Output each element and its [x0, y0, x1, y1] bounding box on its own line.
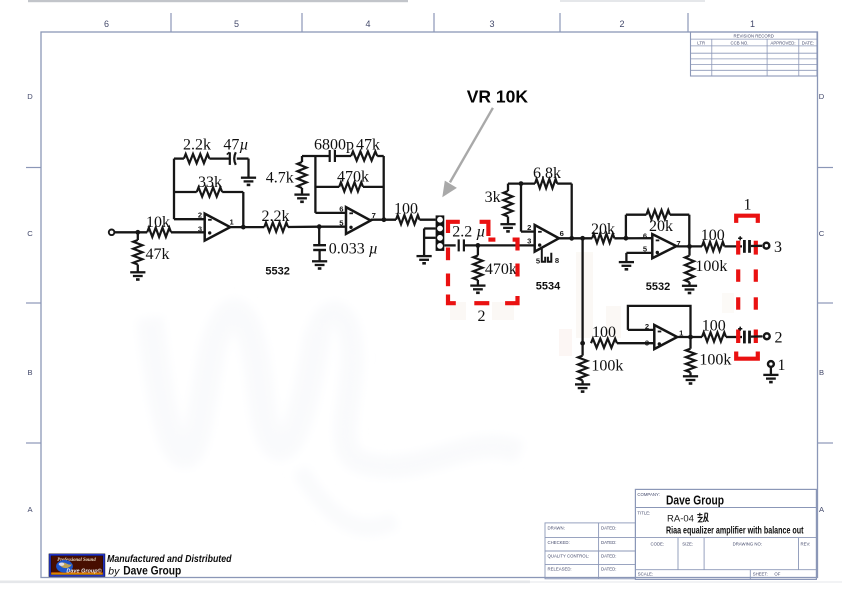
wire 4.7k to ground — [301, 188, 303, 194]
resistor 47k input shunt — [133, 240, 142, 265]
svg-text:2: 2 — [619, 19, 624, 29]
wire terminal 1 to ground — [770, 367, 772, 374]
red dashed box 1 right dash — [754, 297, 758, 309]
svg-text:COMPANY:: COMPANY: — [637, 492, 659, 497]
resistor 3k — [503, 191, 512, 216]
wire 100 to cap — [724, 245, 742, 247]
resistor 100k shunt 4 — [578, 356, 587, 381]
terminal 3 — [764, 243, 770, 249]
wire cap to terminal 3 — [751, 245, 762, 247]
wire 100k to ground 4 — [581, 380, 583, 384]
ground 100k out2 — [683, 376, 698, 383]
svg-text:2.2k: 2.2k — [262, 208, 290, 225]
svg-text:C: C — [27, 229, 33, 238]
wire top branch — [174, 157, 184, 159]
wire 100 to VR pin1 — [420, 219, 436, 221]
svg-text:47µ: 47µ — [223, 137, 248, 154]
red dashed box 2 left dash 2 — [446, 248, 450, 261]
svg-text:DATED:: DATED: — [601, 553, 616, 558]
wire 470k right — [363, 186, 384, 188]
red dashed box 2 top-right corner — [513, 240, 518, 251]
svg-text:1: 1 — [744, 197, 752, 214]
svg-text:CHECKED:: CHECKED: — [548, 540, 570, 545]
svg-text:Dave Group: Dave Group — [123, 564, 181, 578]
red dashed box 1 right dash — [754, 330, 758, 344]
frame zone ticks top — [171, 13, 688, 32]
wire feedback left vertical — [173, 159, 175, 220]
svg-text:6.8k: 6.8k — [533, 165, 561, 182]
wire U1A output — [230, 226, 264, 228]
resistor 2.2k gain — [184, 154, 209, 163]
ground 100k stage4 — [575, 384, 590, 391]
wire pin5 to ground — [625, 253, 627, 262]
svg-text:2.2 µ: 2.2 µ — [452, 224, 485, 241]
red dashed box 2 bottom dash — [474, 301, 489, 305]
op-amp U3A 5532 — [652, 234, 676, 258]
wire feedback top left — [626, 214, 647, 216]
svg-text:3k: 3k — [485, 189, 501, 206]
wire pin5 U3 — [626, 252, 652, 254]
wire 47u to corner — [237, 157, 249, 159]
wire 100k to ground — [688, 282, 690, 285]
svg-text:2: 2 — [775, 330, 783, 347]
potentiometer VR 10K connector — [436, 215, 445, 251]
svg-text:5534: 5534 — [536, 281, 561, 293]
wire 470k to ground — [477, 280, 479, 285]
input terminal — [109, 230, 115, 236]
wire VR pin2 — [424, 227, 436, 229]
revision record table labels — [697, 34, 814, 46]
red dashed box 2 top-left corner — [448, 222, 460, 233]
wire U2 output — [559, 237, 592, 239]
resistor 33k feedback — [197, 187, 222, 196]
wire 47k right — [377, 155, 384, 157]
svg-text:2: 2 — [478, 308, 486, 325]
resistor 10k — [147, 228, 171, 237]
svg-text:100k: 100k — [695, 258, 727, 275]
svg-text:100: 100 — [394, 201, 418, 218]
svg-text:100: 100 — [592, 324, 616, 341]
svg-text:20k: 20k — [591, 221, 615, 238]
svg-text:QUALITY CONTROL:: QUALITY CONTROL: — [548, 553, 590, 558]
wire to 100k shunt — [688, 246, 690, 255]
red dashed box 1 left dash — [736, 297, 740, 309]
wire 20k to pin6 — [614, 237, 652, 239]
svg-text:RELEASED:: RELEASED: — [548, 567, 572, 572]
svg-text:B: B — [27, 368, 32, 377]
svg-text:LTR: LTR — [697, 40, 705, 45]
svg-text:4.7k: 4.7k — [266, 170, 294, 187]
red dashed box 1 right dash — [754, 269, 758, 281]
node U4 output — [688, 335, 693, 340]
wire U3 output — [676, 245, 702, 247]
svg-text:6: 6 — [643, 231, 647, 240]
svg-text:CODE:: CODE: — [651, 542, 665, 547]
scan smudge top edge — [28, 0, 705, 2]
ground pin5 U3 — [619, 262, 634, 269]
wire 2.2k to 47u — [209, 157, 229, 159]
resistor 100 output 2 — [702, 332, 726, 341]
ground 47u — [241, 178, 256, 185]
wire 100k to ground out2 — [689, 372, 691, 376]
svg-text:100: 100 — [701, 227, 725, 244]
op-amp U2 5534 — [535, 225, 559, 252]
wire 0.033u to ground — [318, 250, 320, 261]
node stage4 input — [580, 341, 585, 346]
wire to 4.7k — [301, 156, 303, 162]
wire top 3k to 6.8k — [508, 182, 535, 184]
red dashed box 1 left dash — [736, 269, 740, 281]
wire to pin5 — [319, 226, 346, 228]
red dashed box 1 top bracket — [736, 216, 758, 223]
wire 6800p to 47k — [335, 155, 351, 157]
node U1A output — [241, 225, 246, 230]
svg-text:D: D — [819, 92, 825, 101]
wire 2.2u to pin3 — [464, 244, 535, 246]
wire to 100k shunt 4 — [581, 343, 583, 355]
svg-text:C: C — [819, 229, 825, 238]
svg-text:5: 5 — [234, 19, 239, 29]
svg-text:3: 3 — [645, 339, 649, 348]
svg-text:RA-04: RA-04 — [667, 514, 694, 525]
node 3k junction — [519, 181, 524, 186]
svg-text:SHEET:: SHEET: — [753, 572, 768, 577]
svg-text:1: 1 — [778, 357, 786, 374]
node U2 output — [569, 236, 574, 241]
wire 47k to ground — [137, 265, 139, 272]
wire VR to ground — [423, 229, 425, 256]
capacitor 6800p — [330, 150, 335, 162]
wire feedback left vertical 2 — [314, 156, 316, 213]
svg-text:47k: 47k — [356, 136, 380, 153]
wire U1B output — [371, 219, 396, 221]
svg-text:100: 100 — [702, 318, 726, 335]
terminal 2 — [764, 333, 770, 339]
svg-text:5532: 5532 — [646, 281, 670, 293]
svg-text:DATED:: DATED: — [601, 567, 616, 572]
wire feedback up — [625, 215, 627, 239]
resistor 100 build-out — [396, 215, 420, 224]
node input junction — [135, 230, 140, 235]
wire 2.2k to junction — [288, 226, 319, 229]
red dashed box 1 left dash — [736, 241, 740, 255]
wire cap to terminal 2 — [751, 335, 763, 338]
kanji 改 approximation — [697, 513, 708, 522]
red dashed box 2 step dash — [488, 238, 495, 242]
svg-text:APPROVED:: APPROVED: — [770, 40, 795, 45]
wire pin2 U4 — [628, 329, 654, 331]
wire to 470k shunt — [477, 245, 479, 255]
frame zone numbers — [104, 19, 755, 29]
red dashed box 2 bottom-right corner — [505, 296, 517, 303]
resistor 470k shunt — [473, 256, 482, 281]
wire pin6 — [315, 212, 346, 214]
resistor 100k shunt 3 — [685, 256, 694, 283]
resistor 20k feedback — [646, 210, 670, 219]
title block signature table — [545, 523, 635, 579]
wire 10k to pin3 — [171, 231, 205, 233]
svg-text:2.2k: 2.2k — [183, 137, 211, 154]
svg-text:DATE:: DATE: — [802, 40, 814, 45]
svg-text:CCB NO.: CCB NO. — [731, 40, 749, 45]
svg-text:4: 4 — [365, 19, 370, 29]
svg-text:SIZE:: SIZE: — [682, 542, 693, 547]
red dashed box 2 bottom-left corner — [448, 295, 456, 304]
capacitor output coupling 3 — [738, 236, 751, 253]
wire feedback right vertical — [383, 156, 385, 220]
svg-text:REVISION RECORD: REVISION RECORD — [734, 34, 774, 39]
svg-text:Dave Group: Dave Group — [666, 494, 724, 508]
ground 470k shunt — [470, 286, 485, 293]
annotation arrow — [442, 107, 494, 197]
wire feedback top right — [670, 214, 689, 216]
wire to 3k — [507, 184, 509, 191]
svg-text:DATED:: DATED: — [601, 525, 616, 530]
node 470k junction — [476, 243, 481, 248]
svg-text:20k: 20k — [649, 218, 673, 235]
svg-text:REV:: REV: — [801, 542, 811, 547]
svg-text:1: 1 — [750, 19, 755, 29]
op-amp U1B 5532 — [346, 207, 371, 234]
resistor 4.7k — [297, 162, 306, 188]
frame zone ticks sides — [26, 168, 833, 444]
wire to 100k shunt out2 — [689, 337, 691, 349]
svg-text:Dave Group©: Dave Group© — [66, 568, 102, 575]
svg-text:by: by — [108, 566, 120, 578]
node U3 output — [687, 244, 692, 249]
red dashed box 2 right dash — [515, 264, 519, 277]
resistor 470k feedback — [339, 182, 363, 191]
wire VR pin3 — [424, 237, 436, 239]
scan smudge bottom edge — [0, 581, 530, 584]
svg-text:B: B — [819, 368, 824, 377]
wire top branch 2 — [302, 155, 329, 157]
title block small labels — [548, 492, 811, 577]
ground 47k — [130, 272, 145, 279]
pins 5 and 8 comp stubs — [542, 248, 552, 262]
red dashed box 2 step corner — [480, 222, 489, 236]
resistor 6.8k feedback — [535, 179, 557, 188]
svg-text:5532: 5532 — [265, 266, 289, 278]
terminal 1 — [768, 361, 774, 367]
svg-text:33k: 33k — [198, 174, 222, 191]
red dashed box 1 left dash — [736, 330, 740, 344]
svg-text:470k: 470k — [485, 261, 517, 278]
ground 3k — [500, 224, 515, 231]
revision record table — [691, 32, 818, 76]
svg-text:DRAWING NO:: DRAWING NO: — [733, 542, 762, 547]
svg-text:SCALE:: SCALE: — [638, 572, 653, 577]
wire pin2 — [174, 218, 205, 220]
wire down to ground — [247, 159, 249, 178]
wire pin2 vertical — [520, 184, 522, 232]
node stage3 input — [624, 236, 629, 241]
ground terminal 1 — [763, 375, 778, 382]
wire 100 to pin3 U4 — [617, 342, 654, 344]
wire 3k to ground — [507, 217, 509, 224]
svg-text:6: 6 — [560, 229, 564, 238]
resistor 47k feedback — [351, 151, 377, 160]
svg-text:10k: 10k — [146, 214, 170, 231]
red dashed box 1 bottom bracket — [736, 352, 758, 359]
svg-text:VR 10K: VR 10K — [467, 87, 529, 107]
svg-text:3: 3 — [527, 237, 531, 246]
wire to 470k — [315, 186, 339, 188]
op-amp U3B 5532 — [654, 325, 677, 349]
wire unity feedback loop — [628, 306, 691, 337]
faint beige patches — [450, 252, 734, 356]
op-amp U1A 5532 — [205, 214, 231, 241]
svg-text:6: 6 — [104, 19, 109, 29]
capacitor 0.033u — [313, 245, 326, 250]
wire down to 0.033u — [318, 227, 320, 245]
capacitor 47u polarized — [227, 152, 236, 165]
resistor 2.2k interstage — [264, 223, 288, 232]
wire U4 output — [677, 336, 702, 338]
wire to 33k — [174, 191, 197, 193]
svg-text:D: D — [27, 92, 33, 101]
wire 6.8k down — [571, 184, 573, 239]
wire to 47k — [137, 232, 139, 240]
wire 33k down to output — [242, 192, 244, 227]
svg-text:DRAWN:: DRAWN: — [548, 525, 565, 530]
node 0.033u junction — [317, 224, 322, 229]
svg-text:100k: 100k — [591, 358, 623, 375]
red dashed box 2 left dash 1 — [446, 274, 450, 287]
svg-text:3: 3 — [198, 225, 202, 234]
svg-text:100k: 100k — [699, 352, 731, 369]
node split to lower stage — [580, 236, 585, 241]
red dashed box 1 right dash — [754, 241, 758, 255]
wire input to 10k — [115, 231, 148, 233]
ground VR — [417, 256, 432, 263]
frame zone letters — [27, 92, 825, 514]
resistor 100 series 4 — [591, 339, 617, 348]
wire VR pin4 out — [444, 244, 455, 246]
resistor 100k shunt out2 — [686, 349, 695, 373]
svg-text:6800p: 6800p — [314, 136, 354, 153]
svg-text:0.033 µ: 0.033 µ — [329, 241, 378, 258]
svg-text:DATED:: DATED: — [601, 540, 616, 545]
ground 4.7k — [294, 195, 309, 202]
svg-text:8: 8 — [555, 256, 559, 265]
ground 100k out3 — [682, 286, 697, 293]
svg-text:TITLE:: TITLE: — [637, 510, 650, 515]
svg-text:47k: 47k — [146, 246, 170, 263]
wire pin2 U2 — [521, 230, 535, 232]
wire down to stage 4 — [581, 238, 583, 343]
title block grid — [635, 489, 816, 579]
resistor 100 output 3 — [702, 242, 724, 251]
svg-text:3: 3 — [489, 19, 494, 29]
node U1B output — [382, 217, 387, 222]
wire 100 to cap 2 — [726, 336, 742, 338]
svg-text:Riaa equalizer amplifier with: Riaa equalizer amplifier with balance ou… — [666, 526, 804, 537]
ground 0.033u — [312, 261, 327, 268]
svg-text:OF: OF — [774, 572, 780, 577]
resistor 20k series — [592, 234, 614, 243]
wire feedback down — [688, 215, 690, 247]
wire 33k to corner — [222, 191, 243, 193]
Dave Group logo — [49, 554, 105, 577]
svg-text:3: 3 — [774, 239, 782, 256]
svg-text:470k: 470k — [337, 169, 369, 186]
capacitor output coupling 2 — [738, 327, 751, 344]
wire 6.8k right — [557, 182, 572, 184]
capacitor 2.2u — [459, 239, 464, 251]
